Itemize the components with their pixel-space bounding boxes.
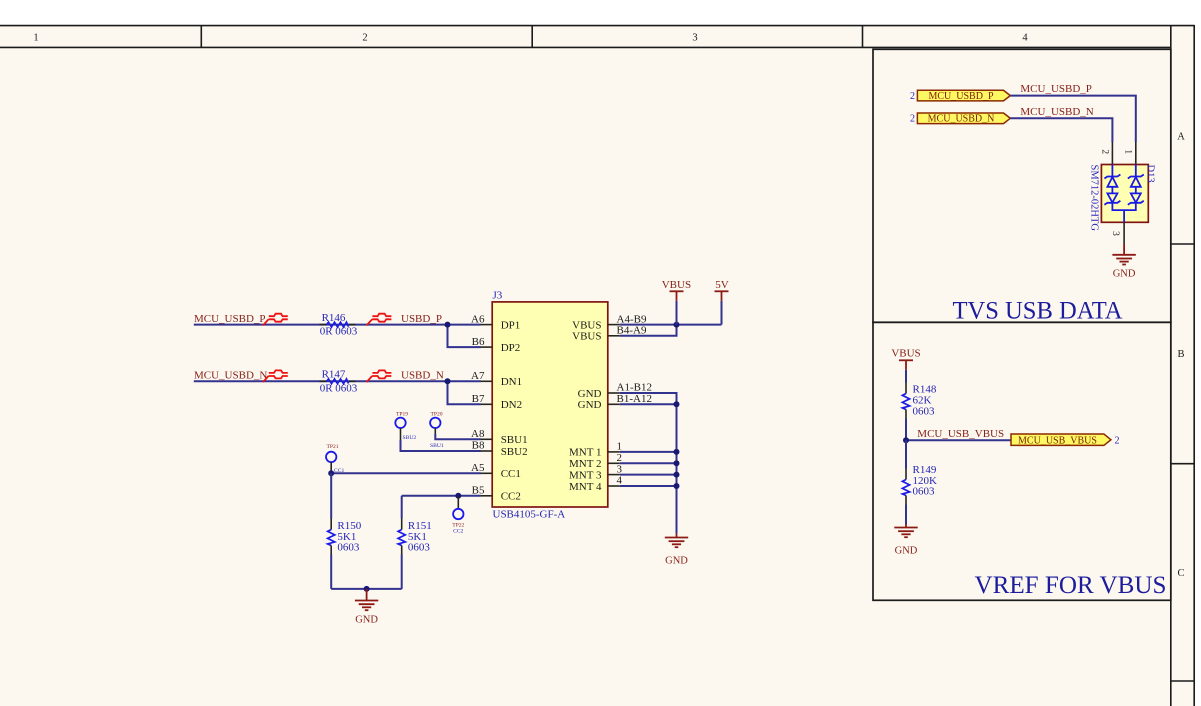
svg-text:SBU1: SBU1: [430, 443, 444, 449]
wire branch to DN2: [448, 381, 481, 404]
port MCU_USBD_P: [917, 90, 1010, 102]
wire B1-A12 to ground bus: [620, 403, 677, 405]
pin B7 DN2: [472, 393, 522, 411]
svg-text:GND: GND: [1113, 268, 1136, 279]
right margin white strip: [1196, 0, 1201, 706]
frame: right band vertical: [1170, 26, 1172, 706]
svg-text:2: 2: [910, 114, 915, 125]
pin A7 DN1: [471, 370, 522, 388]
svg-text:CC2: CC2: [453, 528, 463, 534]
svg-text:A6: A6: [471, 313, 485, 325]
svg-text:A: A: [1177, 132, 1185, 143]
node junction MNT2: [674, 460, 680, 466]
wire MCU_USBD_N to D13 pin 2: [1010, 118, 1112, 142]
svg-text:MCU_USBD_N: MCU_USBD_N: [194, 370, 267, 382]
power symbol VBUS: [662, 279, 691, 301]
svg-text:C: C: [1177, 568, 1184, 579]
svg-text:MNT 4: MNT 4: [569, 481, 602, 493]
svg-text:TP21: TP21: [326, 444, 338, 450]
svg-text:A5: A5: [471, 462, 485, 474]
svg-text:DN1: DN1: [501, 376, 522, 388]
D13 pin 2 lead: [1111, 142, 1113, 165]
svg-text:MCU_USB_VBUS: MCU_USB_VBUS: [1018, 435, 1097, 446]
test point TP19: [395, 411, 408, 440]
frame: band divider A/B: [1171, 243, 1194, 245]
D13 pin 3 lead: [1123, 222, 1125, 244]
svg-text:4: 4: [1022, 33, 1028, 44]
diff pair directive 4: [367, 370, 392, 382]
wire R151 to bottom rail: [401, 555, 403, 589]
wire CC1 down to R150: [330, 473, 332, 518]
svg-text:MCU_USBD_N: MCU_USBD_N: [928, 114, 995, 125]
resistor R147: [320, 369, 358, 395]
node junction GND2: [674, 401, 680, 407]
diff pair directive 1: [263, 314, 288, 326]
TVS diode D13 body: [1101, 165, 1148, 223]
svg-text:0603: 0603: [408, 542, 431, 554]
svg-text:0R 0603: 0R 0603: [320, 326, 358, 338]
svg-text:1: 1: [617, 441, 623, 453]
pin B1-A12 GND: [578, 393, 652, 411]
frame: band divider B/C: [1171, 463, 1194, 465]
TVS diode pair left column: [1104, 175, 1120, 205]
pin B6 DP2: [472, 336, 521, 354]
svg-text:3: 3: [692, 33, 697, 44]
pin B5 CC2: [472, 485, 521, 503]
svg-text:MCU_USBD_N: MCU_USBD_N: [1020, 106, 1093, 118]
node junction VBUS: [674, 322, 680, 328]
wire TP20 to SBU1 pin: [435, 434, 481, 439]
wire MCU_USBD_P to D13 pin 1: [1010, 96, 1136, 142]
svg-text:A4-B9: A4-B9: [617, 313, 647, 325]
svg-text:MCU_USBD_P: MCU_USBD_P: [928, 91, 993, 102]
wire VBUS pins to 5V: [620, 324, 722, 326]
wire VBUS to R148: [905, 370, 907, 383]
power symbol 5V: [715, 279, 729, 301]
svg-text:VREF FOR VBUS: VREF FOR VBUS: [975, 570, 1167, 599]
svg-text:GND: GND: [578, 388, 602, 400]
svg-text:DP2: DP2: [501, 342, 521, 354]
svg-text:TP19: TP19: [396, 411, 408, 417]
svg-text:VBUS: VBUS: [572, 331, 601, 343]
svg-text:A7: A7: [471, 370, 485, 382]
wire B4-A9 up to VBUS junction: [620, 325, 677, 336]
TVS diode pair right column: [1128, 175, 1144, 205]
wire MNT4 to ground bus: [620, 485, 677, 487]
wire MNT3 to ground bus: [620, 474, 677, 476]
diff pair directive 2: [367, 314, 392, 326]
frame: top border line: [0, 25, 1195, 27]
ground symbol CC divider: [355, 589, 378, 625]
svg-text:USBD_P: USBD_P: [401, 313, 442, 325]
svg-text:USB4105-GF-A: USB4105-GF-A: [493, 508, 566, 520]
svg-text:B: B: [1177, 349, 1184, 360]
wire R148 to junction: [905, 419, 907, 441]
svg-text:MCU_USB_VBUS: MCU_USB_VBUS: [917, 428, 1004, 440]
svg-text:2: 2: [1099, 149, 1109, 154]
node junction VBUS divider: [903, 437, 909, 443]
svg-text:MNT 2: MNT 2: [569, 458, 602, 470]
svg-text:VBUS: VBUS: [572, 319, 601, 331]
svg-text:2: 2: [617, 452, 623, 464]
svg-text:MCU_USBD_P: MCU_USBD_P: [194, 313, 266, 325]
frame: header bottom line: [0, 46, 1171, 48]
svg-text:B8: B8: [472, 440, 485, 452]
node junction MNT1: [674, 449, 680, 455]
svg-text:3: 3: [617, 463, 623, 475]
svg-text:MNT 3: MNT 3: [569, 469, 602, 481]
wire CC2 down to R151: [401, 496, 403, 519]
D13 pin 1 lead: [1135, 142, 1137, 165]
wire branch to DP2: [448, 325, 481, 348]
wire CC2: [402, 495, 481, 497]
pin 4 MNT4: [569, 475, 623, 493]
svg-text:0603: 0603: [913, 486, 936, 498]
wire TP19 to SBU2 pin: [401, 440, 481, 451]
svg-text:4: 4: [617, 475, 623, 487]
ground symbol VREF: [894, 524, 917, 557]
pin A4-B9 VBUS: [572, 313, 647, 331]
wire R149 to ground: [905, 505, 907, 525]
svg-text:GND: GND: [355, 614, 378, 625]
D13 internal joining wire: [1112, 203, 1135, 223]
wire bottom rail: [331, 588, 402, 590]
pin A1-B12 GND: [578, 382, 652, 400]
svg-text:A1-B12: A1-B12: [617, 382, 652, 394]
test point TP22: [452, 496, 464, 535]
resistor R146: [320, 312, 358, 338]
svg-text:SBU2: SBU2: [501, 446, 528, 458]
wire A1-B12 to ground bus: [620, 393, 677, 534]
svg-text:CC1: CC1: [501, 468, 521, 480]
svg-text:0R 0603: 0R 0603: [320, 382, 358, 394]
svg-text:D13: D13: [1144, 165, 1155, 183]
svg-text:VBUS: VBUS: [662, 279, 691, 291]
node junction MNT4: [674, 483, 680, 489]
svg-text:MNT 1: MNT 1: [569, 447, 602, 459]
svg-text:0603: 0603: [337, 542, 360, 554]
svg-text:B6: B6: [472, 336, 485, 348]
svg-text:TVS USB DATA: TVS USB DATA: [953, 296, 1124, 325]
pin 3 MNT3: [569, 463, 623, 481]
pin A8 SBU1: [471, 428, 528, 446]
resistor R151: [398, 519, 432, 555]
svg-text:VBUS: VBUS: [891, 348, 920, 360]
node junction CC2/TP22: [455, 493, 461, 499]
pin 1 MNT1: [569, 441, 622, 459]
connector J3 body: [492, 302, 608, 507]
svg-text:B5: B5: [472, 485, 485, 497]
svg-text:GND: GND: [665, 555, 688, 566]
svg-text:3: 3: [1110, 231, 1120, 236]
diff pair directive 3: [263, 370, 288, 382]
svg-text:A8: A8: [471, 428, 485, 440]
svg-text:2: 2: [910, 91, 915, 102]
svg-text:R147: R147: [322, 369, 346, 381]
frame: header divider 2/3: [531, 26, 533, 48]
svg-text:GND: GND: [895, 546, 918, 557]
svg-text:B1-A12: B1-A12: [617, 393, 652, 405]
power symbol VBUS: [891, 348, 920, 370]
svg-text:TP20: TP20: [430, 411, 442, 417]
D13 internal lead left top: [1111, 165, 1113, 178]
frame: band divider C/D: [1171, 680, 1194, 682]
svg-text:0603: 0603: [913, 405, 936, 417]
pin A5 CC1: [471, 462, 521, 480]
svg-text:SBU1: SBU1: [501, 434, 528, 446]
wire MCU_USBD_P row: [194, 324, 481, 326]
frame: outer right border: [1193, 25, 1195, 706]
svg-text:5V: 5V: [715, 279, 729, 291]
svg-text:B4-A9: B4-A9: [617, 325, 647, 337]
svg-text:GND: GND: [578, 399, 602, 411]
top margin white strip: [0, 0, 1201, 25]
resistor R149: [902, 464, 937, 505]
svg-text:J3: J3: [493, 289, 503, 301]
frame: header divider 1/2: [200, 26, 202, 48]
svg-text:B7: B7: [472, 393, 485, 405]
svg-text:DP1: DP1: [501, 319, 521, 331]
svg-text:R146: R146: [322, 312, 346, 324]
wire MCU_USBD_N row: [194, 380, 481, 382]
section box TVS USB DATA: [873, 49, 1171, 322]
node junction DN: [445, 378, 451, 384]
node junction bottom rail: [364, 586, 370, 592]
svg-text:USBD_N: USBD_N: [401, 370, 444, 382]
ground symbol TVS: [1112, 245, 1135, 280]
wire 5V up: [721, 301, 723, 325]
svg-text:SBU2: SBU2: [403, 435, 417, 441]
pin A6 DP1: [471, 313, 520, 331]
svg-text:1: 1: [1123, 149, 1133, 154]
node junction CC1: [328, 470, 334, 476]
ground symbol connector: [665, 534, 688, 567]
svg-text:CC2: CC2: [501, 491, 521, 503]
node junction DP: [445, 322, 451, 328]
resistor R148: [902, 383, 936, 419]
section box VREF FOR VBUS: [873, 322, 1171, 600]
svg-text:2: 2: [1115, 436, 1120, 447]
wire VBUS junction up: [676, 301, 678, 325]
D13 internal lead right top: [1135, 165, 1137, 178]
test point TP20: [430, 411, 443, 434]
svg-text:DN2: DN2: [501, 399, 522, 411]
wire junction to port MCU_USB_VBUS: [906, 439, 1011, 441]
wire junction to R149: [905, 440, 907, 468]
svg-text:SM712-02HTG: SM712-02HTG: [1088, 165, 1099, 232]
svg-text:CC1: CC1: [334, 468, 344, 474]
pin 2 MNT2: [569, 452, 622, 470]
pin B4-A9 VBUS: [572, 325, 647, 343]
svg-text:1: 1: [33, 33, 38, 44]
wire MNT1 to ground bus: [620, 451, 677, 453]
node junction MNT3: [674, 472, 680, 478]
wire CC1: [331, 472, 481, 474]
pin B8 SBU2: [472, 440, 528, 458]
test point TP21: [326, 444, 339, 473]
port MCU_USBD_N: [917, 113, 1010, 125]
wire R150 to bottom rail: [330, 555, 332, 589]
port MCU_USB_VBUS: [1011, 434, 1111, 446]
frame: header divider 3/4: [862, 26, 864, 48]
resistor R150: [328, 519, 362, 555]
svg-text:MCU_USBD_P: MCU_USBD_P: [1020, 83, 1092, 95]
wire MNT2 to ground bus: [620, 462, 677, 464]
svg-text:2: 2: [362, 33, 367, 44]
